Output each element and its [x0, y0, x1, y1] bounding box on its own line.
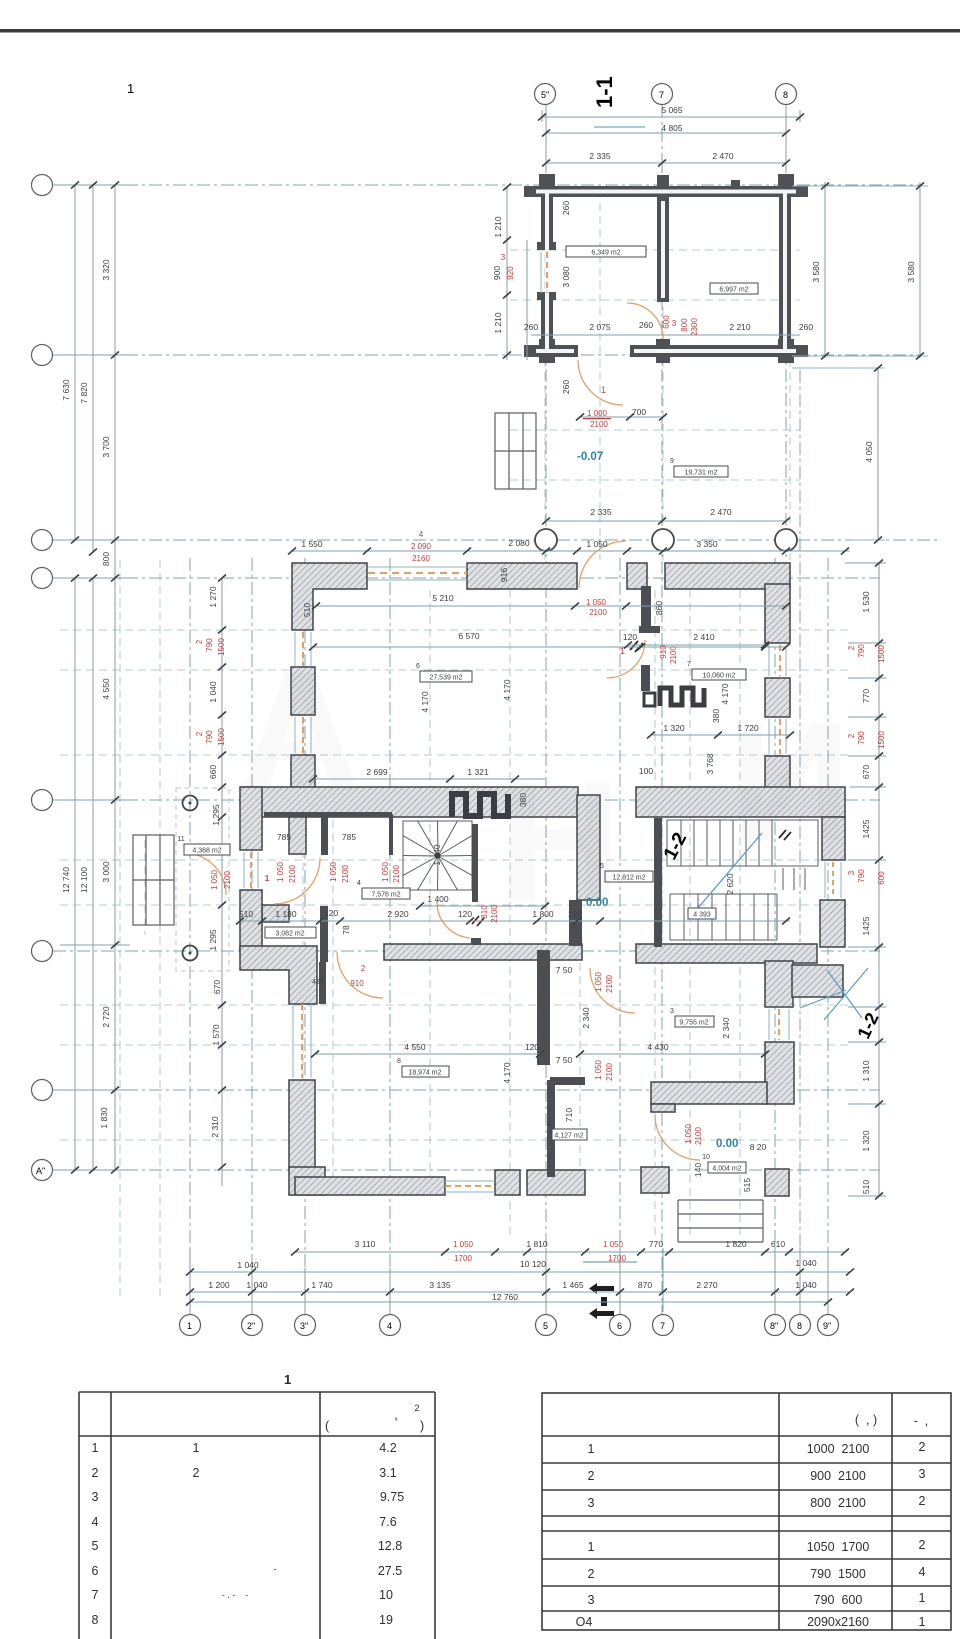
svg-text:1 310: 1 310	[861, 1060, 871, 1082]
junction circle axis5 y540	[535, 529, 557, 551]
svg-text:4: 4	[387, 1321, 392, 1331]
svg-text:6 570: 6 570	[458, 631, 480, 641]
corner cross T-mid	[657, 175, 669, 188]
svg-text:10: 10	[379, 1588, 393, 1602]
partition room7 left wall	[641, 586, 651, 630]
main stair upper flight treads	[667, 820, 818, 866]
svg-text:4,368 m2: 4,368 m2	[192, 848, 221, 855]
left wall lower seg	[289, 1080, 315, 1170]
svg-text:5: 5	[92, 1539, 99, 1553]
bottom extension verticals	[189, 1248, 191, 1312]
dim extension verticals top	[545, 110, 547, 170]
vertical axis line 8 top	[785, 105, 787, 560]
svg-text:3 000: 3 000	[101, 861, 111, 883]
window dash bottom band	[445, 1185, 495, 1187]
svg-text:2160: 2160	[412, 554, 430, 563]
teal level marks	[577, 451, 738, 1150]
top border rule	[0, 29, 960, 33]
window dash top band	[368, 572, 467, 574]
right outer block	[792, 965, 843, 997]
svg-text:1 210: 1 210	[493, 216, 503, 238]
dim line 4430 room3	[580, 1053, 765, 1055]
svg-text:3: 3	[588, 1496, 595, 1510]
annex left wall seg1	[240, 787, 262, 850]
svg-text:8": 8"	[770, 1321, 778, 1331]
mid band right part	[636, 787, 845, 817]
window dash left wall 1	[302, 632, 304, 666]
dim line bottom1	[295, 1251, 845, 1253]
lower-right band leg	[651, 1104, 675, 1112]
right wall mid seg1	[820, 859, 845, 861]
svg-text:1700: 1700	[454, 1254, 472, 1263]
svg-text:3,082 m2: 3,082 m2	[275, 931, 304, 938]
left axis bubble row7	[32, 1080, 53, 1101]
svg-text:12 100: 12 100	[79, 867, 89, 893]
svg-text:2 335: 2 335	[590, 507, 612, 517]
svg-text:2 470: 2 470	[712, 151, 734, 161]
svg-text:2100: 2100	[392, 865, 401, 883]
svg-text:7: 7	[92, 1588, 99, 1602]
svg-text:2 699: 2 699	[366, 767, 388, 777]
svg-text:1 820: 1 820	[725, 1239, 747, 1249]
bottom band seg2	[527, 1170, 585, 1195]
svg-text:7,576 m2: 7,576 m2	[371, 892, 400, 899]
bottom axis bubble 3*	[295, 1315, 316, 1336]
svg-text:4 550: 4 550	[404, 1042, 426, 1052]
svg-text:27,539 m2: 27,539 m2	[429, 675, 462, 682]
porch dashed outline	[176, 788, 229, 971]
left outer chain 12740 lower	[74, 578, 76, 1170]
svg-text:2100: 2100	[694, 1127, 703, 1145]
horizontal axis line y540	[53, 539, 940, 541]
svg-text:260: 260	[524, 322, 538, 332]
svg-text:1: 1	[620, 646, 625, 656]
svg-text:2: 2	[414, 1403, 419, 1413]
svg-text:380: 380	[711, 709, 721, 723]
svg-text:4,004 m2: 4,004 m2	[712, 1166, 741, 1173]
window dash left wall 2	[302, 717, 304, 753]
svg-text:27.5: 27.5	[378, 1564, 402, 1578]
horizontal axis line y945	[53, 950, 880, 952]
vertical axis line 2	[251, 558, 253, 1315]
door arc room 6 to 7	[607, 640, 645, 678]
svg-text:7: 7	[659, 90, 664, 100]
svg-text:9": 9"	[823, 1321, 831, 1331]
svg-text:10: 10	[702, 1154, 710, 1161]
svg-text:4: 4	[919, 1565, 926, 1579]
bottom pier right1	[641, 1167, 669, 1193]
svg-text:2 310: 2 310	[210, 1116, 220, 1138]
svg-text:19,731 m2: 19,731 m2	[684, 470, 717, 477]
svg-text:12 760: 12 760	[492, 1292, 518, 1302]
dim line 2699/1321	[313, 778, 545, 780]
horizontal axis line y355	[53, 354, 920, 356]
left axis bubble A*	[32, 1160, 53, 1181]
svg-text:4 550: 4 550	[101, 678, 111, 700]
partition room7 stub	[639, 626, 660, 633]
svg-text:9,755 m2: 9,755 m2	[679, 1020, 708, 1027]
stair direction blue line	[698, 833, 762, 908]
right wall pier	[765, 678, 790, 717]
double hash mark near axis6	[630, 641, 643, 652]
left wall pier2 corner	[291, 755, 315, 788]
svg-text:2 080: 2 080	[508, 538, 530, 548]
svg-text:2 720: 2 720	[101, 1006, 111, 1028]
svg-text:И: И	[729, 687, 851, 877]
bottom axis bubble 1	[180, 1315, 201, 1336]
left segment chain	[114, 185, 116, 1170]
svg-text:1: 1	[127, 81, 134, 96]
svg-text:3 350: 3 350	[696, 539, 718, 549]
svg-text:120: 120	[525, 1042, 539, 1052]
annex connector wall	[262, 905, 289, 922]
horizontal axis line y185	[53, 184, 920, 186]
svg-text:2: 2	[92, 1466, 99, 1480]
svg-text:2 340: 2 340	[581, 1007, 591, 1029]
svg-text:6,997 m2: 6,997 m2	[719, 287, 748, 294]
svg-text:1425: 1425	[861, 819, 871, 838]
svg-text:916: 916	[499, 568, 509, 582]
svg-text:790: 790	[205, 730, 214, 744]
svg-text:7 630: 7 630	[61, 379, 71, 401]
corner cross L-window	[537, 242, 556, 250]
svg-text:2: 2	[193, 1466, 200, 1480]
svg-text:1: 1	[92, 1441, 99, 1455]
partition rooms 8/1 upper	[537, 950, 550, 1065]
svg-text:785: 785	[342, 832, 356, 842]
svg-text:2: 2	[919, 1440, 926, 1454]
door arc room 2	[337, 952, 383, 998]
svg-text:5 210: 5 210	[432, 593, 454, 603]
top band seg B	[467, 563, 577, 589]
svg-text:2090x2160: 2090x2160	[807, 1615, 869, 1629]
door arc room 5 to 3	[590, 968, 635, 1013]
corridor partition x390	[389, 814, 393, 855]
svg-text:2: 2	[195, 639, 204, 644]
svg-text:610: 610	[771, 1239, 785, 1249]
svg-text:1500: 1500	[877, 645, 886, 663]
axis bubble 7 top	[652, 84, 673, 105]
svg-text:3 110: 3 110	[355, 1239, 376, 1249]
svg-text:2 270: 2 270	[696, 1280, 718, 1290]
svg-text:1: 1	[284, 1372, 291, 1387]
door arc room 11	[274, 858, 320, 904]
svg-text:8: 8	[397, 1058, 401, 1065]
svg-text:1700: 1700	[608, 1254, 626, 1263]
svg-text:1: 1	[265, 874, 270, 883]
svg-text:2 210: 2 210	[729, 322, 751, 332]
svg-text:1 465: 1 465	[562, 1280, 584, 1290]
svg-text:7 820: 7 820	[79, 382, 89, 404]
svg-text:3.1: 3.1	[379, 1466, 396, 1480]
left axis bubble row3	[32, 530, 53, 551]
svg-text:790: 790	[205, 638, 214, 652]
white centre lines of log walls	[536, 190, 796, 353]
svg-text:-: -	[274, 1564, 277, 1574]
svg-text:1500: 1500	[217, 728, 226, 746]
svg-text:7.6: 7.6	[379, 1515, 396, 1529]
svg-text:700: 700	[632, 407, 646, 417]
horizontal axis line y1090	[53, 1089, 880, 1091]
upper bottom wall left	[532, 345, 578, 357]
svg-text:2 335: 2 335	[589, 151, 611, 161]
upper building window gap (left wall)	[546, 252, 548, 293]
svg-text:- ,: - ,	[914, 1414, 929, 1428]
bottom pier right2	[765, 1169, 789, 1196]
bottom band seg1	[295, 1177, 445, 1195]
svg-text:3: 3	[919, 1467, 926, 1481]
dim right 4050	[877, 368, 879, 540]
svg-text:260: 260	[639, 320, 653, 330]
door arc room 3 lower	[655, 1115, 700, 1160]
svg-text:1425: 1425	[861, 916, 871, 935]
top band seg A with corner leg	[292, 563, 367, 630]
svg-text:2 920: 2 920	[387, 909, 409, 919]
svg-text:(: (	[325, 1419, 330, 1433]
svg-text:2: 2	[195, 731, 204, 736]
svg-text:260: 260	[799, 322, 813, 332]
svg-text:8: 8	[92, 1613, 99, 1627]
dim line 6570	[313, 646, 786, 648]
svg-text:9.75: 9.75	[380, 1490, 404, 1504]
svg-text:2: 2	[919, 1494, 926, 1508]
svg-text:2100: 2100	[605, 975, 614, 993]
svg-text:3 700: 3 700	[101, 436, 111, 458]
svg-text:1: 1	[919, 1591, 926, 1605]
svg-text:3 768: 3 768	[705, 753, 715, 775]
svg-text:120: 120	[623, 632, 637, 642]
svg-text:2100: 2100	[223, 871, 232, 889]
svg-text:790 1500: 790 1500	[810, 1567, 866, 1581]
corridor wall horizontal	[264, 812, 392, 817]
svg-text:3: 3	[670, 1008, 674, 1015]
door arc room4	[437, 901, 470, 938]
dim line 4550 room8	[315, 1053, 540, 1055]
bottom axis bubble 5	[536, 1315, 557, 1336]
svg-text:2100: 2100	[341, 865, 350, 883]
svg-text:8: 8	[797, 1321, 802, 1331]
red texts	[265, 253, 677, 1263]
upper left wall seg2	[541, 295, 553, 357]
svg-text:2 075: 2 075	[589, 322, 611, 332]
svg-text:4 393: 4 393	[693, 912, 711, 919]
dimension lines	[60, 110, 920, 1312]
svg-text:1: 1	[193, 1441, 200, 1455]
svg-text:1 295: 1 295	[208, 929, 218, 951]
svg-text:1-2: 1-2	[660, 829, 691, 863]
svg-text:2: 2	[361, 964, 366, 973]
partition room11 lower	[320, 906, 328, 962]
svg-text:7 50: 7 50	[556, 965, 573, 975]
upper interior wall	[657, 197, 669, 302]
svg-text:1 050: 1 050	[453, 1240, 474, 1249]
left outer chain 7820	[92, 185, 94, 552]
left wall pier1	[291, 667, 315, 715]
svg-text:8 20: 8 20	[750, 1142, 767, 1152]
svg-text:120: 120	[324, 908, 338, 918]
dim line 2920/1800	[480, 920, 790, 922]
horizontal axis line y578	[53, 577, 880, 579]
svg-text:6,349 m2: 6,349 m2	[591, 250, 620, 257]
corner cross TL	[539, 174, 555, 188]
svg-text:3: 3	[92, 1490, 99, 1504]
lower-right band	[651, 1082, 767, 1104]
right table (doors and windows)	[542, 1393, 951, 1630]
svg-text:2100: 2100	[605, 1063, 614, 1081]
svg-text:4 170: 4 170	[420, 691, 430, 713]
bottom axis bubble 7	[653, 1315, 674, 1336]
left inner chain x222	[221, 578, 223, 1186]
left outer chain 7630	[74, 185, 76, 540]
svg-text:2100: 2100	[669, 646, 678, 664]
mid band left part	[242, 787, 578, 817]
svg-text:790: 790	[857, 869, 866, 883]
main stair lower flight treads	[670, 866, 818, 940]
svg-text:4.2: 4.2	[379, 1441, 396, 1455]
svg-text:100: 100	[639, 766, 653, 776]
svg-text:78: 78	[341, 925, 351, 935]
svg-text:1 320: 1 320	[663, 723, 685, 733]
svg-text:12.8: 12.8	[378, 1539, 402, 1553]
svg-text:9: 9	[670, 458, 674, 465]
svg-text:1 050: 1 050	[594, 971, 603, 992]
dimension ticks	[71, 114, 924, 1306]
svg-text:1 040: 1 040	[208, 681, 218, 703]
window dash annex left	[250, 852, 252, 888]
bottom axis bubble 9*	[818, 1315, 839, 1336]
bottom axis bubble 2*	[242, 1315, 263, 1336]
svg-text:910: 910	[350, 979, 364, 988]
svg-text:5: 5	[543, 1321, 548, 1331]
svg-text:2 090: 2 090	[411, 542, 432, 551]
svg-text:4 170: 4 170	[502, 679, 512, 701]
svg-text:2: 2	[588, 1567, 595, 1581]
bottom axis bubble 8*	[765, 1315, 786, 1336]
svg-text:12 740: 12 740	[61, 867, 71, 893]
svg-text:3: 3	[588, 1593, 595, 1607]
dim line top 4805	[546, 132, 786, 134]
svg-text:4 050: 4 050	[864, 441, 874, 463]
annex left wall seg2	[240, 890, 262, 950]
svg-text:670: 670	[212, 980, 222, 994]
partition below band	[319, 962, 326, 1004]
svg-text:1 050: 1 050	[276, 861, 285, 882]
door arc main entry	[579, 541, 626, 588]
svg-text:-0.07: -0.07	[577, 451, 603, 463]
right wall seg3	[765, 756, 790, 790]
axis bubble 5* top	[535, 84, 556, 105]
stove comb 2 (room 7)	[641, 665, 704, 706]
svg-text:4: 4	[419, 530, 424, 539]
svg-text:7: 7	[660, 1321, 665, 1331]
svg-text:2 470: 2 470	[710, 507, 732, 517]
svg-text:1 000: 1 000	[587, 409, 608, 418]
window dash left lower	[301, 1004, 303, 1078]
svg-text:4 430: 4 430	[647, 1042, 669, 1052]
svg-text:1 050: 1 050	[684, 1123, 693, 1144]
corner cross BR	[778, 339, 794, 363]
upper right wall	[779, 186, 791, 357]
upper left wall seg1	[541, 186, 553, 248]
extension lines for right upper chains	[792, 186, 928, 540]
top band pier 6	[627, 563, 647, 589]
upper terrace stairs	[495, 413, 536, 489]
svg-text:1 270: 1 270	[208, 586, 218, 608]
svg-text:5 065: 5 065	[661, 105, 683, 115]
right wall upper seg	[765, 584, 790, 643]
bottom-left corner	[289, 1167, 325, 1195]
window dash right lower	[778, 1009, 780, 1040]
svg-text:7: 7	[687, 661, 691, 668]
svg-text:510: 510	[861, 1180, 871, 1194]
svg-text:800: 800	[680, 318, 689, 332]
bottom exterior steps	[678, 1200, 763, 1242]
svg-text:900 2100: 900 2100	[810, 1469, 866, 1483]
svg-text:510: 510	[302, 603, 312, 617]
partition room4/5 vertical upper	[577, 795, 600, 900]
svg-text:3: 3	[672, 319, 677, 328]
svg-text:510: 510	[239, 909, 253, 919]
svg-text:2100: 2100	[590, 420, 608, 429]
svg-text:670: 670	[861, 765, 871, 779]
svg-text:1: 1	[547, 1121, 551, 1128]
svg-text:3 580: 3 580	[811, 261, 821, 283]
dim line bottom total	[190, 1301, 828, 1303]
double hash mark room5 door	[779, 830, 791, 840]
svg-text:6: 6	[617, 1321, 622, 1331]
faint watermark	[239, 637, 851, 937]
svg-text:( , ): ( , )	[855, 1413, 877, 1427]
partition rooms 8/1 lower	[547, 1080, 555, 1177]
svg-text:1 570: 1 570	[211, 1024, 221, 1046]
vertical axis line 8*	[774, 558, 776, 1315]
svg-text:2100: 2100	[589, 608, 607, 617]
corner cross B-mid	[656, 339, 670, 363]
door stop notch room4	[471, 938, 481, 945]
svg-text:3 135: 3 135	[429, 1280, 451, 1290]
dim line top 2335-2470	[546, 162, 786, 164]
svg-text:4,127 m2: 4,127 m2	[554, 1133, 583, 1140]
vertical axis line 8 bottom	[799, 370, 801, 1315]
vertical axis line 6	[619, 558, 621, 1315]
vertical axis line 9	[827, 558, 829, 1315]
svg-text:515: 515	[742, 1178, 752, 1192]
section cut blue cross	[800, 968, 868, 1020]
svg-text:6: 6	[92, 1564, 99, 1578]
svg-text:2100: 2100	[288, 865, 297, 883]
svg-text:1: 1	[588, 1540, 595, 1554]
svg-text:7 50: 7 50	[556, 1055, 573, 1065]
inner left wall below band	[289, 817, 306, 854]
svg-text:4: 4	[92, 1515, 99, 1529]
corner cross BL	[539, 339, 555, 363]
svg-text:120: 120	[458, 909, 472, 919]
dim line 700	[580, 416, 663, 418]
svg-text:2: 2	[919, 1538, 926, 1552]
svg-text:2: 2	[847, 645, 856, 650]
stair room bottom wall	[636, 944, 817, 963]
junction circle axis7 y540	[652, 529, 674, 551]
svg-text:1 040: 1 040	[246, 1280, 268, 1290]
door arc upper building exit	[578, 360, 623, 405]
left axis bubble row5	[32, 790, 53, 811]
dim chain right of upper building	[824, 182, 826, 358]
svg-text:4 805: 4 805	[661, 123, 683, 133]
svg-text:1 050: 1 050	[603, 1240, 624, 1249]
upper top wall	[532, 186, 800, 197]
svg-text:785: 785	[277, 832, 291, 842]
svg-text:3": 3"	[300, 1321, 308, 1331]
